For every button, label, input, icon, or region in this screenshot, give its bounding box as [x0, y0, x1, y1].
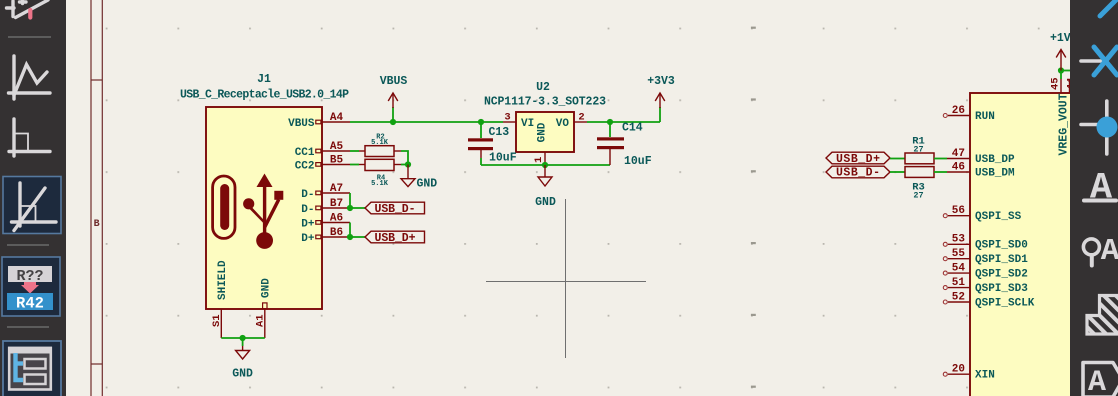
svg-text:46: 46	[952, 161, 965, 173]
junction J1 gnd	[240, 335, 246, 341]
resistor R4 reference label	[377, 175, 385, 183]
sheet border row label B	[94, 219, 100, 230]
svg-text:B: B	[94, 219, 100, 230]
MCU pin 51 QSPI_SD3	[943, 277, 1028, 295]
C13 reference label	[489, 126, 510, 139]
J1 pin name CC2	[295, 161, 315, 173]
resistor R1 value 27	[913, 145, 923, 155]
svg-text:A: A	[1101, 234, 1118, 269]
svg-text:27: 27	[913, 145, 923, 155]
J1 USB-C receptacle glyph	[213, 176, 235, 238]
ground symbol at J1	[232, 346, 253, 381]
J1 pin name D- (B7)	[301, 204, 314, 216]
J1 pin name VBUS	[288, 118, 315, 130]
capacitor C13	[468, 122, 493, 165]
svg-text:USB_D-: USB_D-	[375, 203, 416, 216]
svg-text:55: 55	[952, 248, 966, 260]
svg-text:QSPI_SD2: QSPI_SD2	[975, 269, 1028, 281]
C14 reference label	[622, 122, 643, 135]
junction D+	[347, 234, 353, 240]
resistor R2	[359, 146, 401, 157]
U2 pin 2 line	[574, 121, 587, 123]
U2 pin 1 line	[544, 152, 546, 163]
svg-text:5.1K: 5.1K	[371, 139, 389, 147]
svg-text:SHIELD: SHIELD	[217, 260, 229, 300]
svg-text:GND: GND	[261, 278, 273, 298]
svg-text:C13: C13	[489, 126, 510, 139]
junction VBUS at power symbol	[390, 119, 396, 125]
svg-text:GND: GND	[535, 196, 556, 209]
svg-text:QSPI_SCLK: QSPI_SCLK	[975, 297, 1035, 309]
svg-text:USB_D+: USB_D+	[375, 232, 416, 245]
MCU pin name VREG_VOUT (rotated)	[1058, 93, 1071, 155]
resistor R1 reference label	[912, 136, 925, 148]
J1 pin number A6	[330, 213, 343, 225]
J1 pin A7 line	[316, 191, 350, 195]
annotate tool (R?? -> R42), toggled on	[2, 257, 60, 316]
svg-text:USB_D-: USB_D-	[836, 167, 880, 180]
wire GND net under U2	[481, 164, 610, 166]
C13 value 10uF	[489, 152, 517, 165]
C14 value 10uF	[624, 155, 652, 168]
J1 pin name D+ (B6)	[301, 233, 315, 245]
connector J1 body	[206, 107, 322, 309]
capacitor C14	[597, 122, 624, 165]
no-connect flag tool	[1081, 47, 1117, 75]
J1 pin number A1 (rotated)	[255, 314, 267, 327]
J1 pin A4 line	[316, 120, 350, 124]
svg-text:QSPI_SD1: QSPI_SD1	[975, 254, 1028, 266]
MCU pin 46 USB_DM	[947, 161, 1015, 179]
selected tool: 45-degree wire mode	[3, 177, 61, 234]
global label USB_D+ at J1	[365, 231, 425, 245]
resistor R2 reference label	[376, 133, 384, 141]
power symbol VBUS	[380, 75, 408, 122]
ground symbol at R2/R4	[401, 165, 437, 191]
svg-text:A: A	[1088, 366, 1106, 396]
svg-text:S1: S1	[211, 314, 223, 327]
svg-text:GND: GND	[417, 178, 438, 191]
U2 pin number 3	[504, 112, 510, 124]
svg-text:5.1K: 5.1K	[371, 180, 389, 188]
svg-text:GND: GND	[232, 368, 253, 381]
grid dash column x=753	[751, 27, 756, 388]
svg-text:XIN: XIN	[975, 370, 995, 382]
global label tool (A in tag, clipped)	[1083, 363, 1118, 396]
svg-text:D+: D+	[301, 219, 315, 231]
wire VBUS net: J1.A4 to U2.VI	[350, 121, 503, 123]
U2 pin number 1 (rotated)	[533, 157, 545, 163]
svg-text:10uF: 10uF	[489, 152, 517, 165]
svg-text:VI: VI	[521, 118, 534, 130]
svg-text:3: 3	[504, 112, 510, 124]
svg-text:A1: A1	[255, 314, 267, 327]
svg-text:B5: B5	[330, 155, 344, 167]
svg-text:J1: J1	[257, 73, 271, 86]
global label USB_D+ at MCU	[826, 152, 890, 166]
sheet border left inner line	[101, 0, 103, 396]
svg-text:VREG_VOUT: VREG_VOUT	[1058, 93, 1071, 155]
U2 pin name VI	[521, 118, 534, 130]
svg-text:QSPI_SD3: QSPI_SD3	[975, 283, 1028, 295]
svg-text:QSPI_SS: QSPI_SS	[975, 211, 1022, 223]
svg-text:A6: A6	[330, 213, 343, 225]
svg-text:53: 53	[952, 234, 966, 246]
resistor R3 value 27	[913, 191, 923, 201]
svg-text:USB_C_Receptacle_USB2.0_14P: USB_C_Receptacle_USB2.0_14P	[180, 89, 349, 102]
wire label to R3	[890, 171, 905, 173]
MCU pin 55 QSPI_SD1	[943, 248, 1028, 266]
J1 pin number S1 (rotated)	[211, 314, 223, 327]
icon: 90-degree wire mode	[9, 119, 50, 156]
global label USB_D- at MCU	[826, 166, 890, 179]
svg-text:10uF: 10uF	[624, 155, 652, 168]
connector J1 reference label	[257, 73, 271, 86]
U2 pin number 2	[578, 112, 584, 124]
J1 USB trident glyph	[243, 174, 283, 249]
ground symbol at U2	[535, 165, 556, 209]
wire U2.VO to +3V3	[587, 121, 660, 123]
svg-text:1: 1	[533, 157, 545, 163]
MCU pin 56 QSPI_SS	[943, 205, 1021, 223]
J1 pin name D- (A7)	[301, 189, 314, 201]
J1 pin name D+ (A6)	[301, 219, 315, 231]
wire D- A7 to B7	[349, 193, 351, 208]
J1 pin A1 line	[263, 303, 267, 338]
J1 pin number B5	[330, 155, 344, 167]
svg-text:GND: GND	[537, 122, 549, 142]
svg-text:NCP1117-3.3_SOT223: NCP1117-3.3_SOT223	[484, 96, 606, 109]
sheet border row tick A/B	[91, 79, 102, 81]
svg-text:+3V3: +3V3	[647, 75, 675, 88]
svg-text:A5: A5	[330, 141, 344, 153]
J1 pin S1 line	[220, 309, 222, 338]
MCU pin 52 QSPI_SCLK	[943, 291, 1035, 309]
svg-text:27: 27	[913, 191, 923, 201]
junction CC pulldown GND	[405, 161, 411, 167]
J1 pin A5 line	[316, 149, 350, 153]
wire J1 shield/gnd bottom	[221, 337, 264, 339]
wire CC2 to R4	[350, 164, 359, 166]
wire label to R1	[890, 158, 905, 160]
sheet border row tick B/C	[91, 363, 102, 365]
svg-text:B6: B6	[330, 227, 343, 239]
svg-text:VBUS: VBUS	[380, 75, 408, 88]
wire CC1 to R2	[350, 150, 359, 152]
svg-text:56: 56	[952, 205, 965, 217]
toolbar separator	[7, 244, 49, 246]
U2 pin name VO	[556, 118, 570, 130]
junction tool	[1081, 101, 1118, 154]
svg-text:A4: A4	[330, 112, 344, 124]
resistor R4 value 5.1K	[371, 180, 389, 188]
J1 pin B6 line	[316, 235, 350, 239]
sheet border left outer line	[90, 0, 92, 396]
svg-text:2: 2	[578, 112, 584, 124]
wire stub right from junction	[1061, 70, 1070, 72]
J1 pin name SHIELD (rotated)	[217, 260, 229, 300]
resistor R1	[905, 153, 947, 164]
svg-text:RUN: RUN	[975, 111, 995, 123]
svg-text:USB_D+: USB_D+	[836, 153, 880, 166]
MCU pin 44 (partial, clipped)	[1066, 77, 1078, 93]
J1 pin number B6	[330, 227, 343, 239]
svg-text:CC2: CC2	[295, 161, 315, 173]
toolbar separator	[8, 36, 51, 38]
J1 pin name GND (rotated)	[261, 278, 273, 298]
J1 pin B5 line	[316, 163, 350, 167]
svg-text:45: 45	[1050, 77, 1062, 90]
J1 pin number A7	[330, 183, 343, 195]
svg-text:52: 52	[952, 291, 965, 303]
global label USB_D- at J1	[365, 202, 425, 216]
right toolbar background	[1070, 0, 1118, 396]
svg-text:51: 51	[952, 277, 966, 289]
MCU pin 26 RUN	[943, 105, 995, 123]
symbol-fields-table tool, toggled on	[3, 341, 61, 396]
regulator U2 body	[516, 112, 574, 152]
wire D+ A6 to B6	[349, 223, 351, 238]
text tool	[1084, 168, 1116, 210]
J1 pin number A4	[330, 112, 344, 124]
net label tool	[1083, 234, 1118, 269]
junction U2 gnd	[542, 162, 548, 168]
svg-text:C14: C14	[622, 122, 643, 135]
MCU U? body (partial)	[970, 93, 1080, 396]
svg-text:54: 54	[952, 263, 966, 275]
junction D-	[347, 205, 353, 211]
rule area / hatched polygon tool	[1087, 296, 1118, 335]
resistor R4	[359, 159, 401, 170]
regulator U2 reference label	[536, 81, 550, 94]
svg-text:VBUS: VBUS	[288, 118, 315, 130]
svg-text:D-: D-	[301, 189, 314, 201]
svg-text:R42: R42	[16, 295, 44, 313]
svg-text:26: 26	[952, 105, 965, 117]
U2 pin name GND (rotated)	[537, 122, 549, 142]
regulator U2 value NCP1117-3.3_SOT223	[484, 96, 606, 109]
MCU pin 53 QSPI_SD0	[943, 234, 1028, 252]
J1 pin number A5	[330, 141, 344, 153]
svg-text:20: 20	[952, 364, 965, 376]
wire junction down to gnd symbol	[242, 338, 244, 346]
wire R4 right to junction	[401, 164, 408, 166]
wire pin45 to +1V1	[1060, 71, 1062, 80]
partial icon top (simulator)	[7, 0, 49, 18]
resistor R2 value 5.1K	[371, 139, 389, 147]
crosshair cursor	[486, 199, 646, 358]
partial icon top right (wire tool, clipped)	[1100, 0, 1118, 16]
svg-text:A: A	[1090, 168, 1113, 210]
MCU pin 54 QSPI_SD2	[943, 263, 1028, 281]
wire D- to label	[350, 207, 365, 209]
J1 pin B7 line	[316, 206, 350, 210]
resistor R3 reference label	[912, 182, 925, 194]
junction at pin45	[1058, 67, 1064, 73]
icon: free-angle wire mode	[9, 56, 51, 99]
svg-text:A7: A7	[330, 183, 343, 195]
junction VBUS at C13	[478, 119, 484, 125]
svg-text:CC1: CC1	[295, 147, 315, 159]
J1 pin A6 line	[316, 221, 350, 225]
svg-text:B7: B7	[330, 198, 343, 210]
svg-text:USB_DP: USB_DP	[975, 154, 1015, 166]
svg-text:USB_DM: USB_DM	[975, 167, 1015, 179]
MCU pin 47 USB_DP	[947, 148, 1015, 166]
svg-text:VO: VO	[556, 118, 570, 130]
J1 pin number B7	[330, 198, 343, 210]
wire D+ to label	[350, 236, 365, 238]
wire R2 right to GND corner	[401, 151, 408, 165]
MCU pin 45 VREG_VOUT (vertical, top)	[1050, 77, 1062, 93]
power symbol +1V1 (partial)	[1050, 32, 1078, 71]
toolbar separator	[7, 326, 49, 328]
U2 pin 3 line	[503, 121, 516, 123]
junction C14 top	[607, 119, 613, 125]
svg-text:D+: D+	[301, 233, 315, 245]
resistor R3	[905, 167, 947, 178]
svg-text:47: 47	[952, 148, 965, 160]
J1 pin name CC1	[295, 147, 315, 159]
svg-text:D-: D-	[301, 204, 314, 216]
svg-text:QSPI_SD0: QSPI_SD0	[975, 240, 1028, 252]
power symbol +3V3	[647, 75, 675, 122]
MCU pin 20 XIN	[943, 364, 995, 382]
svg-text:U2: U2	[536, 81, 550, 94]
left toolbar background	[0, 0, 66, 396]
connector J1 value label USB_C_Receptacle_USB2.0_14P	[180, 89, 349, 102]
